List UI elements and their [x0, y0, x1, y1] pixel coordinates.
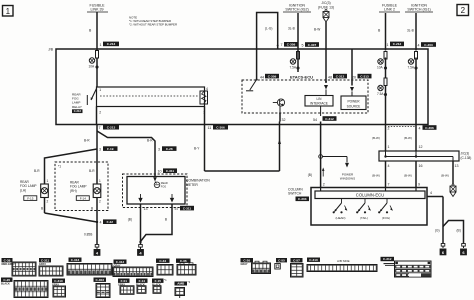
svg-text:11: 11: [208, 126, 212, 130]
svg-text:GRAY: GRAY: [241, 263, 248, 266]
svg-text:(B-W): (B-W): [404, 136, 412, 140]
svg-text:C-311: C-311: [183, 206, 192, 210]
svg-text:C-312: C-312: [325, 117, 334, 121]
svg-text:C-36: C-36: [180, 259, 187, 263]
svg-text:1: 1: [47, 179, 49, 183]
svg-text:METER: METER: [186, 183, 198, 187]
svg-text:32: 32: [282, 118, 286, 122]
svg-text:(B): (B): [128, 218, 132, 222]
svg-text:J/C(3): J/C(3): [321, 1, 330, 5]
svg-text:C-311: C-311: [41, 258, 50, 262]
svg-text:(B-W): (B-W): [404, 174, 412, 178]
svg-text:(C-138): (C-138): [461, 156, 472, 160]
svg-text:C-57: C-57: [293, 258, 300, 262]
svg-text:F-14: F-14: [80, 197, 87, 201]
svg-text:C-28: C-28: [166, 147, 173, 151]
svg-text:SWITCH (IG1): SWITCH (IG1): [407, 8, 430, 12]
svg-text:(L-G): (L-G): [265, 27, 272, 31]
svg-text:54: 54: [313, 118, 317, 122]
svg-text:(G): (G): [435, 229, 440, 233]
svg-text:WINDOWS: WINDOWS: [340, 176, 355, 180]
svg-text:B: B: [91, 207, 93, 211]
svg-text:9: 9: [418, 183, 420, 187]
svg-text:B-R: B-R: [89, 169, 95, 173]
svg-text:2: 2: [388, 127, 390, 131]
svg-text:(RH): (RH): [70, 189, 77, 193]
svg-text:48: 48: [328, 75, 332, 79]
svg-text:C-34: C-34: [159, 259, 166, 263]
svg-text:C-213: C-213: [107, 42, 116, 46]
svg-text:*1: *1: [164, 278, 167, 282]
svg-text:2: 2: [99, 200, 101, 204]
svg-text:(B-W): (B-W): [372, 174, 380, 178]
svg-text:2: 2: [99, 111, 101, 115]
svg-text:3L-B: 3L-B: [407, 29, 414, 33]
svg-text:C-309: C-309: [268, 74, 277, 78]
svg-text:F-01: F-01: [121, 279, 128, 283]
svg-text:C-213: C-213: [107, 126, 116, 130]
svg-text:4: 4: [418, 44, 420, 48]
svg-text:(B-W): (B-W): [372, 136, 380, 140]
svg-text:B-R: B-R: [147, 139, 153, 143]
svg-text:F-14: F-14: [139, 279, 146, 283]
svg-text:LINK 39: LINK 39: [91, 8, 104, 12]
svg-text:C-306: C-306: [425, 126, 434, 130]
svg-text:RELAY: RELAY: [72, 105, 82, 109]
svg-text:C-312: C-312: [116, 260, 125, 264]
svg-text:SWITCH (IG2): SWITCH (IG2): [285, 8, 308, 12]
svg-text:1: 1: [6, 7, 11, 16]
svg-text:C-312: C-312: [336, 74, 345, 78]
svg-text:4: 4: [419, 127, 421, 131]
svg-text:3: 3: [158, 148, 160, 152]
svg-text:BLACK: BLACK: [1, 283, 10, 286]
svg-text:7.5A: 7.5A: [377, 92, 384, 96]
svg-text:2: 2: [461, 6, 466, 15]
svg-text:LINK 2: LINK 2: [384, 8, 395, 12]
svg-text:13: 13: [455, 164, 459, 168]
svg-text:*1: *1: [58, 165, 61, 169]
svg-text:C-306: C-306: [216, 126, 225, 130]
svg-text:FOG: FOG: [161, 185, 166, 188]
svg-text:B-R: B-R: [34, 169, 40, 173]
svg-text:C-312: C-312: [383, 257, 392, 261]
svg-text:5: 5: [302, 44, 304, 48]
svg-text:A/B SIDE: A/B SIDE: [337, 259, 350, 263]
svg-text:4: 4: [430, 191, 432, 195]
svg-text:C-303: C-303: [96, 278, 105, 282]
svg-text:44: 44: [260, 75, 264, 79]
svg-text:10: 10: [158, 170, 162, 174]
svg-text:10A: 10A: [377, 66, 384, 70]
svg-text:B: B: [41, 207, 43, 211]
svg-text:B-R: B-R: [84, 139, 90, 143]
svg-text:2: 2: [47, 200, 49, 204]
svg-text:4: 4: [100, 221, 102, 225]
svg-text:F-15: F-15: [27, 197, 34, 201]
svg-text:F-22: F-22: [107, 220, 114, 224]
svg-text:C-313: C-313: [360, 74, 369, 78]
svg-text:(HEAD): (HEAD): [336, 216, 346, 220]
svg-text:C-213: C-213: [74, 109, 82, 113]
svg-text:C-303: C-303: [298, 197, 307, 201]
svg-text:C-307: C-307: [308, 43, 317, 47]
svg-text:(B): (B): [457, 229, 461, 233]
svg-text:3L-B: 3L-B: [288, 27, 295, 31]
svg-text:C-310: C-310: [309, 258, 318, 262]
svg-text:LIN: LIN: [317, 97, 323, 101]
svg-text:7: 7: [281, 43, 283, 47]
svg-text:(LH): (LH): [20, 188, 26, 192]
svg-text:1: 1: [100, 43, 102, 47]
svg-text:B-W: B-W: [314, 28, 320, 32]
svg-text:13: 13: [144, 207, 148, 211]
svg-text:1: 1: [99, 88, 101, 92]
svg-text:1: 1: [388, 145, 390, 149]
svg-text:10A: 10A: [89, 65, 96, 69]
svg-text:0.85B: 0.85B: [84, 232, 92, 236]
svg-text:F-19: F-19: [107, 147, 114, 151]
svg-text:POWER: POWER: [347, 100, 360, 104]
svg-text:C-203: C-203: [424, 43, 433, 47]
svg-text:*2: *2: [188, 280, 191, 284]
svg-text:(FUSE 13): (FUSE 13): [318, 6, 334, 10]
svg-text:F-15: F-15: [155, 279, 162, 283]
svg-text:AMB: AMB: [177, 282, 185, 286]
svg-text:C-38: C-38: [4, 258, 11, 262]
svg-text:INTERFACE: INTERFACE: [310, 102, 328, 106]
svg-text:C-313: C-313: [71, 258, 80, 262]
svg-text:J/B: J/B: [48, 48, 54, 52]
svg-text:(B): (B): [308, 173, 312, 177]
svg-text:(FOG): (FOG): [382, 216, 390, 220]
svg-text:SWITCH: SWITCH: [288, 192, 302, 196]
svg-text:SOURCE: SOURCE: [347, 104, 361, 108]
svg-text:(B-W): (B-W): [441, 174, 449, 178]
svg-text:J/C(3): J/C(3): [461, 152, 470, 156]
svg-text:C-20: C-20: [3, 278, 10, 282]
svg-text:C-212: C-212: [393, 42, 402, 46]
svg-text:57: 57: [175, 207, 179, 211]
svg-text:1: 1: [99, 179, 101, 183]
svg-text:2: 2: [323, 183, 325, 187]
svg-text:C-26: C-26: [243, 258, 250, 262]
svg-text:1: 1: [387, 43, 389, 47]
svg-text:*2: WITHOUT REAR STEP BUMPER: *2: WITHOUT REAR STEP BUMPER: [129, 22, 177, 26]
svg-text:C-311: C-311: [166, 169, 175, 173]
svg-text:7: 7: [99, 126, 101, 130]
svg-text:ETACS-ECU: ETACS-ECU: [290, 74, 313, 79]
svg-text:C-310: C-310: [54, 279, 63, 283]
svg-text:7.5A: 7.5A: [290, 66, 297, 70]
svg-text:7: 7: [388, 183, 390, 187]
svg-text:COLUMN-ECU: COLUMN-ECU: [356, 193, 384, 198]
svg-text:3: 3: [99, 148, 101, 152]
svg-text:4: 4: [388, 164, 390, 168]
svg-text:7.5A: 7.5A: [408, 66, 415, 70]
svg-text:16: 16: [419, 164, 423, 168]
svg-text:C-55: C-55: [278, 258, 285, 262]
svg-text:B-Y: B-Y: [194, 147, 200, 151]
svg-text:(TAIL): (TAIL): [360, 216, 368, 220]
svg-text:B: B: [165, 218, 167, 222]
svg-text:COMBINATION: COMBINATION: [186, 179, 210, 183]
svg-text:C-309: C-309: [287, 43, 296, 47]
svg-text:12: 12: [419, 145, 423, 149]
